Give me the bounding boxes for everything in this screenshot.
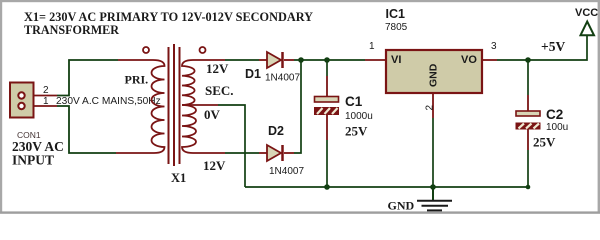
junction node C1-gnd — [324, 184, 330, 190]
svg-text:100u: 100u — [546, 122, 568, 133]
svg-text:1: 1 — [369, 41, 375, 52]
svg-text:1: 1 — [43, 96, 49, 107]
svg-text:+5V: +5V — [541, 39, 565, 54]
junction node D2-rail — [298, 57, 304, 63]
svg-text:1N4007: 1N4007 — [269, 166, 304, 177]
ground rail — [245, 186, 528, 188]
svg-text:IC1: IC1 — [386, 7, 406, 21]
connector CON1 — [10, 83, 34, 118]
svg-text:2: 2 — [43, 85, 49, 96]
primary phase dot — [143, 47, 149, 53]
svg-text:230V A.C MAINS,50Hz: 230V A.C MAINS,50Hz — [56, 96, 161, 107]
wire secondary top to D1 — [225, 59, 259, 61]
svg-text:VCC: VCC — [575, 7, 598, 19]
svg-text:GND: GND — [388, 199, 415, 213]
svg-text:C2: C2 — [546, 107, 563, 122]
svg-text:VO: VO — [461, 54, 477, 66]
capacitor C1 — [315, 97, 339, 115]
svg-text:PRI.: PRI. — [125, 73, 149, 87]
junction node C2-top — [525, 57, 531, 63]
junction node C2-gnd — [526, 185, 531, 190]
junction node C1-rail — [324, 57, 330, 63]
wire D1 cathode to IC pin1 (positive rail) — [294, 59, 365, 61]
svg-text:0V: 0V — [204, 107, 221, 122]
secondary phase dot — [200, 47, 206, 53]
transformer X1 primary winding — [116, 60, 165, 153]
wire pin1 to primary bottom — [26, 106, 117, 153]
svg-text:12V: 12V — [206, 61, 229, 76]
svg-text:GND: GND — [428, 63, 440, 87]
wire C1 verticals — [326, 60, 328, 76]
svg-text:SEC.: SEC. — [205, 83, 234, 98]
transformer X1 secondary winding top half — [182, 60, 225, 105]
wire C2 verticals — [527, 60, 529, 95]
svg-text:1000u: 1000u — [345, 111, 373, 122]
svg-text:D2: D2 — [268, 124, 284, 138]
wire IC pin2 down to rail — [432, 93, 434, 118]
wire pin2 to primary top — [26, 60, 119, 96]
svg-text:2: 2 — [425, 105, 436, 111]
transformer X1 secondary winding bottom half — [182, 105, 225, 153]
header text — [24, 9, 314, 37]
svg-text:X1: X1 — [171, 171, 186, 185]
svg-text:1N4007: 1N4007 — [265, 73, 300, 84]
secondary center tap 0V — [182, 104, 218, 106]
junction node IC2-gnd — [430, 184, 436, 190]
svg-text:3: 3 — [491, 41, 497, 52]
svg-text:INPUT: INPUT — [12, 153, 54, 168]
ground symbol — [417, 187, 452, 210]
diode D2 — [259, 145, 294, 161]
svg-text:25V: 25V — [533, 135, 556, 150]
diode D1 — [259, 52, 294, 68]
wire IC pin3 to VCC arrow — [497, 35, 587, 60]
svg-text:C1: C1 — [345, 94, 363, 109]
transformer core — [169, 44, 180, 166]
VCC power arrow — [581, 22, 595, 36]
svg-text:12V: 12V — [203, 158, 226, 173]
svg-text:7805: 7805 — [385, 22, 408, 33]
wire secondary bottom to D2 — [225, 152, 259, 154]
frame borders — [0, 0, 600, 2]
regulator IC1 7805 — [365, 50, 497, 93]
wire D2 cathode vertical to rail — [294, 60, 301, 153]
capacitor C2 — [516, 111, 540, 129]
svg-text:TRANSFORMER: TRANSFORMER — [24, 22, 120, 37]
svg-text:D1: D1 — [245, 67, 261, 81]
wire 0V tap down to ground rail — [218, 105, 245, 187]
svg-text:VI: VI — [391, 54, 401, 66]
svg-text:25V: 25V — [345, 124, 368, 139]
